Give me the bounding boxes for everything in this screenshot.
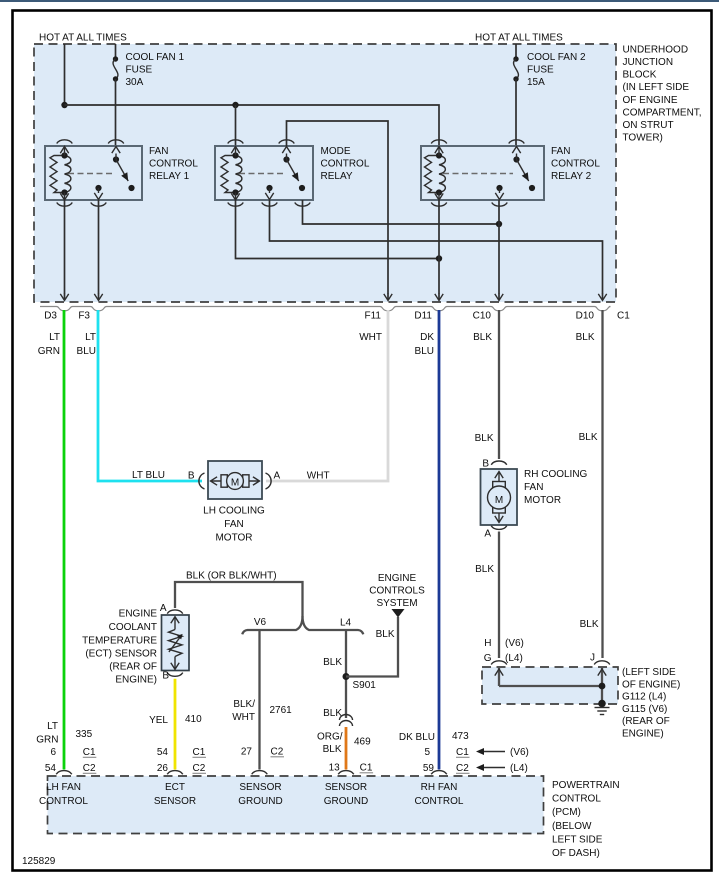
svg-text:FAN: FAN [551,146,570,157]
svg-text:2761: 2761 [270,705,293,716]
svg-text:MOTOR: MOTOR [215,533,252,544]
wire relay1 mid to F3 [98,200,100,294]
svg-text:SENSOR: SENSOR [325,782,367,793]
svg-text:5: 5 [424,747,430,758]
ground wires inside box [498,668,500,686]
svg-text:F11: F11 [365,311,382,322]
wire ORG/BLK 469 to PCM [345,727,348,770]
svg-text:B: B [162,671,169,682]
svg-text:RH FAN: RH FAN [421,782,458,793]
svg-text:CONTROL: CONTROL [149,159,198,170]
svg-text:GROUND: GROUND [324,796,368,807]
svg-text:473: 473 [452,731,469,742]
svg-text:OF ENGINE: OF ENGINE [623,95,678,106]
svg-text:LEFT SIDE: LEFT SIDE [552,834,603,845]
motor M2 RH COOLING FAN MOTOR [481,459,588,540]
svg-text:(IN LEFT SIDE: (IN LEFT SIDE [623,82,690,93]
svg-text:B: B [482,459,489,470]
svg-text:BLK: BLK [475,564,494,575]
svg-text:C2: C2 [456,763,469,774]
svg-text:LH FAN: LH FAN [46,782,81,793]
svg-text:BLK: BLK [580,619,599,630]
node D11 junction [436,255,442,261]
svg-text:YEL: YEL [149,715,168,726]
svg-text:H: H [484,638,491,649]
node S901 [343,673,350,680]
svg-text:OF ENGINE): OF ENGINE) [622,679,680,690]
svg-text:335: 335 [76,729,93,740]
wire BLK/WHT 2761 V6 branch to PCM [258,630,260,770]
svg-text:C1: C1 [360,763,373,774]
svg-text:FAN: FAN [149,146,168,157]
svg-text:M: M [495,495,503,506]
wire BLK D10 to ground J [601,310,603,658]
svg-text:15A: 15A [527,77,545,88]
svg-text:(LEFT SIDE: (LEFT SIDE [622,667,676,678]
wire relay1 coil to D3 [64,200,66,294]
svg-text:(L4): (L4) [505,653,523,664]
svg-text:POWERTRAIN: POWERTRAIN [552,780,620,791]
svg-text:COOL FAN 1: COOL FAN 1 [126,52,185,63]
ground box [482,667,618,704]
svg-text:S901: S901 [353,680,377,691]
svg-text:COOLANT: COOLANT [109,622,157,633]
svg-text:GRN: GRN [38,346,60,357]
svg-text:G112 (L4): G112 (L4) [622,692,666,703]
arrows V6/L4 at RH pin [476,747,529,774]
svg-text:ENGINE: ENGINE [119,609,158,620]
wire relay2 coil to D11 [438,200,440,294]
svg-text:C2: C2 [83,763,96,774]
wire BLK L4 branch to S901 [345,630,347,718]
svg-text:ECT: ECT [165,782,185,793]
svg-text:SYSTEM: SYSTEM [376,598,417,609]
PCM box [48,776,544,834]
svg-text:A: A [274,471,281,482]
svg-text:13: 13 [329,763,341,774]
fuse F2 COOL FAN 2 15A [513,56,518,81]
svg-text:DK: DK [420,332,434,343]
svg-text:(V6): (V6) [505,638,524,649]
wire BLK RH motor A to ground G [498,532,500,659]
motor M1 LH COOLING FAN MOTOR [188,461,281,544]
svg-text:C10: C10 [473,311,492,322]
svg-text:(L4): (L4) [510,763,528,774]
svg-text:SENSOR: SENSOR [154,796,196,807]
PCM pin rows [45,747,470,775]
svg-text:BLK: BLK [323,657,342,668]
wire YEL 410 ECT B to PCM [174,679,177,770]
svg-text:BLOCK: BLOCK [623,70,657,81]
svg-text:BLK: BLK [376,629,395,640]
PCM pin connectors [56,771,72,775]
label ENGINE COOLANT TEMPERATURE (ECT) SENSOR [82,609,157,686]
svg-text:D11: D11 [414,311,432,322]
ground symbol G112/G115 [595,708,610,715]
svg-text:D3: D3 [44,311,57,322]
relay K1 FAN CONTROL RELAY 1 [45,140,198,206]
top window strip [0,0,719,2]
label ground location [622,667,680,740]
svg-text:B: B [188,471,195,482]
V6/L4 option split [242,616,363,634]
svg-text:(PCM): (PCM) [552,807,581,818]
wire mode switch contact to C10 [303,200,500,224]
svg-text:FUSE: FUSE [126,65,153,76]
svg-text:LT BLU: LT BLU [132,470,165,481]
svg-text:LT: LT [47,721,58,732]
pin G connector [491,661,507,665]
svg-text:TOWER): TOWER) [623,133,663,144]
svg-text:M: M [231,478,239,489]
svg-text:MOTOR: MOTOR [524,495,561,506]
connector C1 row line [40,307,611,311]
svg-text:WHT: WHT [359,332,382,343]
relay K2 MODE CONTROL RELAY [215,140,370,206]
wire B+ bus [65,105,440,146]
node mode coil junction [232,102,238,108]
svg-text:410: 410 [185,714,202,725]
svg-text:L4: L4 [340,618,352,629]
wire fuse2 to relay2 switch [515,79,517,146]
wire fuse1 to relay1 switch [115,79,117,146]
engine controls system arrow [392,609,405,618]
svg-text:WHT: WHT [307,471,330,482]
sensor ECT [160,603,189,682]
svg-text:BLK: BLK [576,332,595,343]
svg-text:GRN: GRN [36,735,58,746]
label POWERTRAIN CONTROL MODULE [552,780,620,859]
svg-text:C1: C1 [83,747,96,758]
svg-text:CONTROL: CONTROL [551,159,600,170]
svg-text:G115 (V6): G115 (V6) [622,704,667,715]
svg-text:469: 469 [354,737,371,748]
svg-text:(ECT) SENSOR: (ECT) SENSOR [85,649,157,660]
svg-text:A: A [484,529,491,540]
svg-text:MODE: MODE [321,146,351,157]
svg-text:OF DASH): OF DASH) [552,848,600,859]
svg-text:SENSOR: SENSOR [239,782,281,793]
wire BLK C10 to RH motor B [498,310,500,459]
svg-text:GROUND: GROUND [238,796,282,807]
label UNDERHOOD JUNCTION BLOCK [623,44,702,143]
inline connector on L4 branch [340,715,353,727]
relay K3 FAN CONTROL RELAY 2 [421,140,600,206]
svg-text:C1: C1 [617,311,630,322]
svg-text:59: 59 [423,763,435,774]
svg-text:LH COOLING: LH COOLING [203,506,265,517]
svg-text:CONTROL: CONTROL [39,796,88,807]
svg-text:WHT: WHT [232,712,255,723]
svg-text:ENGINE): ENGINE) [622,729,664,740]
wire mode coil to D11 bus [236,200,440,259]
wire WHT F11 to LH motor [266,310,388,481]
svg-text:HOT AT ALL TIMES: HOT AT ALL TIMES [475,33,563,44]
svg-text:LT: LT [85,332,96,343]
svg-text:(REAR OF: (REAR OF [622,716,670,727]
wire LT GRN 335 D3 to PCM [63,310,66,770]
svg-text:BLK: BLK [323,744,342,755]
svg-text:54: 54 [157,747,169,758]
fuse F1 COOL FAN 1 30A [113,56,118,81]
wire DK BLU 473 D11 to PCM [438,310,441,770]
svg-text:6: 6 [50,747,56,758]
svg-text:C1: C1 [193,747,206,758]
svg-text:C1: C1 [456,747,469,758]
svg-text:(BELOW: (BELOW [552,821,592,832]
svg-text:BLK: BLK [473,332,492,343]
wire mode mid to D10 [270,200,603,294]
svg-text:RELAY: RELAY [321,171,353,182]
svg-text:CONTROL: CONTROL [415,796,464,807]
svg-text:BLK: BLK [475,433,494,444]
node C10 junction [496,221,502,227]
wire LT BLU F3 to LH motor [98,310,202,481]
svg-text:C2: C2 [271,747,284,758]
wire S901 to engine controls [346,617,398,677]
arrowheads at junction block outputs [60,294,68,301]
svg-text:BLU: BLU [415,346,434,357]
svg-text:F3: F3 [78,311,90,322]
svg-text:COOL FAN 2: COOL FAN 2 [527,52,586,63]
svg-text:26: 26 [157,763,169,774]
svg-text:ON STRUT: ON STRUT [623,120,674,131]
svg-text:A: A [160,603,167,614]
svg-text:JUNCTION: JUNCTION [623,57,674,68]
node bus-feed junction [61,102,67,108]
svg-text:RH COOLING: RH COOLING [524,469,588,480]
wire fuse1 feed [115,44,117,59]
wire fuse2 feed [515,44,517,59]
PCM pin names [39,782,464,807]
svg-text:(V6): (V6) [510,747,529,758]
svg-text:ORG/: ORG/ [317,732,343,743]
svg-text:BLK: BLK [323,708,342,719]
svg-text:V6: V6 [254,617,267,628]
svg-text:RELAY 2: RELAY 2 [551,171,592,182]
svg-text:125829: 125829 [22,856,56,867]
svg-text:(REAR OF: (REAR OF [109,662,157,673]
svg-text:CONTROL: CONTROL [552,794,601,805]
svg-text:BLK (OR BLK/WHT): BLK (OR BLK/WHT) [186,571,277,582]
svg-text:FAN: FAN [224,519,243,530]
svg-text:30A: 30A [126,77,144,88]
underhood junction block box [34,44,616,302]
svg-text:27: 27 [241,747,253,758]
wire BLK (OR BLK/WHT) ECT A to split [175,582,303,616]
wire B+ feed left [64,44,66,105]
svg-text:LT: LT [49,332,60,343]
svg-text:J: J [590,653,595,664]
svg-text:BLK/: BLK/ [233,699,255,710]
svg-text:BLK: BLK [579,432,598,443]
svg-text:G: G [484,653,492,664]
wire mode coil drop [235,105,237,146]
svg-text:D10: D10 [576,311,595,322]
svg-text:FUSE: FUSE [527,65,554,76]
wire mode switch feed from F11 [287,121,389,294]
svg-text:CONTROLS: CONTROLS [369,586,425,597]
svg-text:C2: C2 [193,763,206,774]
svg-text:COMPARTMENT,: COMPARTMENT, [623,107,702,118]
svg-text:RELAY 1: RELAY 1 [149,171,190,182]
pin J connector [594,661,610,665]
svg-text:TEMPERATURE: TEMPERATURE [82,635,157,646]
svg-text:DK BLU: DK BLU [399,732,435,743]
svg-text:54: 54 [45,763,57,774]
svg-text:BLU: BLU [77,346,96,357]
svg-text:HOT AT ALL TIMES: HOT AT ALL TIMES [39,33,127,44]
svg-text:CONTROL: CONTROL [321,159,370,170]
svg-text:UNDERHOOD: UNDERHOOD [623,44,689,55]
wire relay2 mid to C10 [498,200,500,294]
svg-text:ENGINE: ENGINE [378,573,417,584]
svg-text:FAN: FAN [524,482,543,493]
svg-text:ENGINE): ENGINE) [115,675,157,686]
